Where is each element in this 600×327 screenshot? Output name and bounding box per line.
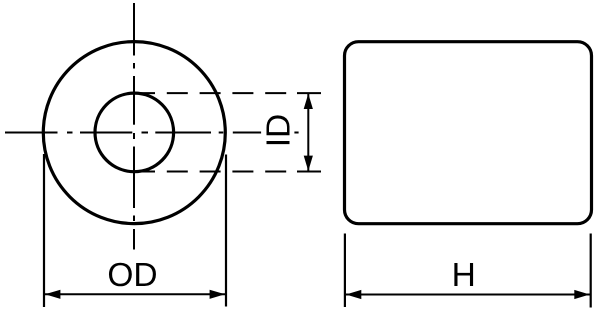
OD arrow right xyxy=(210,290,225,299)
OD dimension line xyxy=(45,293,226,295)
inner circle (ID bore) xyxy=(95,93,174,172)
side view rounded rectangle xyxy=(345,42,592,224)
horizontal centerline xyxy=(5,132,299,134)
OD arrow left xyxy=(45,290,60,299)
H extension line right xyxy=(590,234,592,308)
dashed extension line bottom (ID) xyxy=(134,171,321,173)
H dimension line xyxy=(345,294,590,296)
svg-text:OD: OD xyxy=(107,257,157,294)
svg-text:H: H xyxy=(452,257,476,294)
outer circle (OD) xyxy=(43,42,225,224)
vertical centerline xyxy=(133,3,135,250)
ID arrow up xyxy=(304,94,313,109)
H arrow right xyxy=(574,290,589,299)
ID arrow down xyxy=(304,156,313,171)
dashed extension line top (ID) xyxy=(134,92,321,94)
OD extension line right xyxy=(225,155,227,307)
OD extension line left xyxy=(43,154,45,307)
H extension line left xyxy=(344,234,346,308)
ID dimension line xyxy=(307,93,309,171)
H arrow left xyxy=(346,290,361,299)
svg-text:ID: ID xyxy=(261,114,298,148)
